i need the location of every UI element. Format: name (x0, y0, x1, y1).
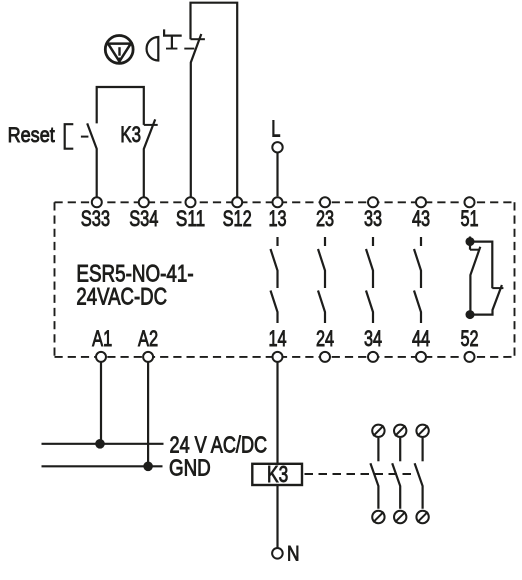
svg-text:23: 23 (316, 207, 334, 232)
svg-text:S11: S11 (176, 207, 205, 232)
svg-text:24: 24 (316, 326, 334, 351)
svg-text:52: 52 (460, 326, 478, 351)
svg-text:Reset: Reset (8, 124, 56, 148)
svg-text:A1: A1 (92, 327, 112, 352)
svg-text:S34: S34 (129, 207, 158, 232)
svg-text:S12: S12 (223, 207, 252, 232)
svg-text:A2: A2 (138, 327, 158, 352)
svg-text:GND: GND (169, 455, 211, 482)
svg-text:L: L (271, 117, 280, 142)
svg-text:44: 44 (412, 326, 430, 351)
svg-text:13: 13 (268, 207, 286, 232)
svg-text:K3: K3 (120, 123, 141, 148)
svg-text:34: 34 (364, 326, 382, 351)
svg-text:14: 14 (268, 326, 286, 351)
svg-text:K3: K3 (267, 463, 288, 488)
svg-text:24VAC-DC: 24VAC-DC (76, 283, 167, 310)
svg-text:51: 51 (460, 207, 478, 232)
svg-text:N: N (287, 542, 299, 566)
svg-text:33: 33 (364, 207, 382, 232)
svg-text:43: 43 (412, 207, 430, 232)
svg-text:S33: S33 (81, 207, 110, 232)
